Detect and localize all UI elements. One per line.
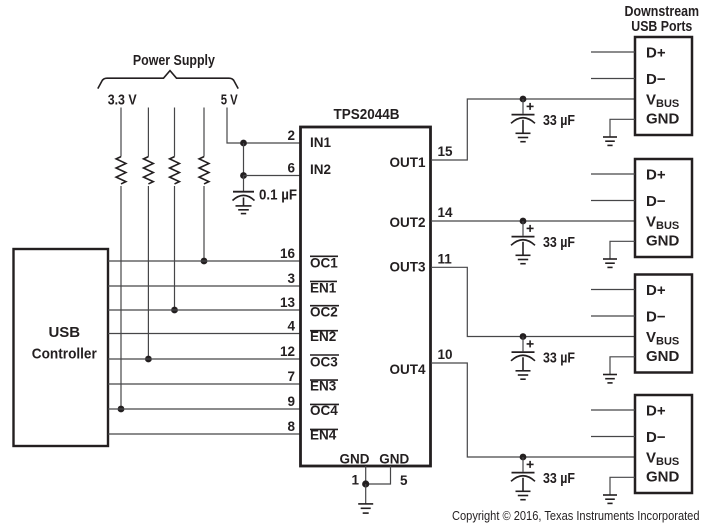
junction rail1-OC4 xyxy=(118,406,125,413)
wire port 3 GND to ground xyxy=(610,357,635,375)
pin label OC4 xyxy=(310,403,339,418)
svg-text:7: 7 xyxy=(287,369,295,384)
svg-text:EN3: EN3 xyxy=(310,379,337,394)
svg-text:10: 10 xyxy=(438,347,453,362)
USB Controller box xyxy=(14,249,109,446)
svg-text:8: 8 xyxy=(287,419,295,434)
ground C1 xyxy=(236,206,252,214)
svg-text:USB Ports: USB Ports xyxy=(631,18,692,35)
capacitor C 33uF port 4 xyxy=(511,473,535,492)
USB port 2 box xyxy=(635,159,692,257)
plus sign port 4 cap xyxy=(527,461,534,468)
plus sign port 2 cap xyxy=(527,225,534,232)
resistor R3 xyxy=(170,157,180,184)
svg-text:5 V: 5 V xyxy=(221,91,238,108)
svg-text:OUT4: OUT4 xyxy=(389,362,425,377)
plus sign port 1 cap xyxy=(527,103,534,110)
wire OUT1 to port1 VBUS xyxy=(431,99,635,160)
ground IC xyxy=(358,504,373,513)
brace power supply xyxy=(98,71,238,89)
junction IN2 node B xyxy=(240,172,247,179)
wire GND pin1 xyxy=(365,466,367,484)
wire port 1 D- stub xyxy=(591,78,635,80)
svg-text:33 µF: 33 µF xyxy=(543,234,575,251)
svg-text:33 µF: 33 µF xyxy=(543,470,575,487)
svg-text:6: 6 xyxy=(287,161,295,176)
junction OUT3 cap xyxy=(520,333,527,340)
svg-text:OUT2: OUT2 xyxy=(389,215,425,230)
svg-text:0.1 µF: 0.1 µF xyxy=(259,186,297,203)
capacitor 33uF port 1 stub xyxy=(522,99,524,114)
svg-text:12: 12 xyxy=(280,344,295,359)
svg-text:3: 3 xyxy=(287,271,295,286)
wire node A down to IN2 node xyxy=(243,143,245,176)
resistor R4 xyxy=(199,157,209,184)
wire OC3 xyxy=(108,358,301,360)
capacitor C 33uF port 2 xyxy=(511,237,535,256)
svg-text:D−: D− xyxy=(646,71,666,88)
wire EN2 xyxy=(108,333,301,335)
svg-text:2: 2 xyxy=(287,128,295,143)
wire rail 4 lower to OC1 xyxy=(203,186,205,261)
svg-text:GND: GND xyxy=(646,348,680,365)
svg-text:IN2: IN2 xyxy=(310,162,331,177)
wire port 2 GND to ground xyxy=(610,241,635,259)
wire OUT3 to port3 VBUS xyxy=(431,267,635,336)
junction rail4-OC1 xyxy=(201,258,208,265)
svg-text:11: 11 xyxy=(438,251,453,266)
svg-text:OUT3: OUT3 xyxy=(389,259,425,274)
wire rail 4 upper xyxy=(203,108,205,157)
svg-text:GND: GND xyxy=(379,452,409,467)
wire port 4 D+ stub xyxy=(591,409,635,411)
junction OUT4 cap xyxy=(520,454,527,461)
svg-text:Controller: Controller xyxy=(32,346,97,363)
plus sign port 3 cap xyxy=(527,340,534,347)
wire GND pin5 xyxy=(366,466,391,484)
wire OUT4 to port4 VBUS xyxy=(431,363,635,457)
resistor R1 xyxy=(116,157,126,184)
wire rail 3 upper xyxy=(174,108,176,157)
ground 33uF port 1 xyxy=(516,133,531,141)
capacitor 33uF port 3 stub xyxy=(522,337,524,352)
svg-text:33 µF: 33 µF xyxy=(543,350,575,367)
svg-text:D+: D+ xyxy=(646,282,666,299)
svg-text:5: 5 xyxy=(400,473,408,488)
USB port 3 box xyxy=(635,275,692,373)
wire EN4 xyxy=(108,433,301,435)
resistor R2 xyxy=(144,157,154,184)
USB port 4 box xyxy=(635,395,692,493)
capacitor 33uF port 2 stub xyxy=(522,221,524,236)
wire rail 2 lower to OC3 xyxy=(147,186,149,359)
svg-text:14: 14 xyxy=(438,205,454,220)
svg-text:15: 15 xyxy=(438,144,454,159)
junction GND xyxy=(362,480,369,487)
svg-text:4: 4 xyxy=(287,319,295,334)
svg-text:16: 16 xyxy=(280,246,296,261)
wire port 2 D+ stub xyxy=(591,173,635,175)
wire OUT2 to port2 VBUS xyxy=(431,220,635,222)
svg-text:EN1: EN1 xyxy=(310,281,337,296)
junction OUT2 cap xyxy=(520,218,527,225)
capacitor C 33uF port 3 xyxy=(511,352,535,371)
svg-text:Power Supply: Power Supply xyxy=(133,52,216,69)
wire port 4 GND to ground xyxy=(610,477,635,495)
wire node B to IN2 pin xyxy=(244,175,301,177)
wire OC4 xyxy=(108,408,301,410)
svg-text:D+: D+ xyxy=(646,402,666,419)
svg-text:9: 9 xyxy=(287,394,295,409)
wire OC2 xyxy=(108,309,301,311)
svg-text:Copyright © 2016, Texas Instru: Copyright © 2016, Texas Instruments Inco… xyxy=(452,508,700,523)
svg-text:3.3 V: 3.3 V xyxy=(108,91,137,108)
svg-text:OC1: OC1 xyxy=(310,256,338,271)
svg-text:D+: D+ xyxy=(646,166,666,183)
ground port 4 xyxy=(603,495,617,503)
svg-text:D−: D− xyxy=(646,193,666,210)
capacitor 33uF port 4 stub xyxy=(522,457,524,472)
junction rail3-OC2 xyxy=(171,307,178,314)
svg-text:IN1: IN1 xyxy=(310,135,332,150)
ground 33uF port 4 xyxy=(516,491,531,499)
svg-text:OC3: OC3 xyxy=(310,354,338,369)
wire EN1 xyxy=(108,285,301,287)
svg-text:USB: USB xyxy=(48,324,80,341)
wire port 2 D- stub xyxy=(591,200,635,202)
pin label OC3 xyxy=(310,354,339,369)
wire 3.3V rail 1 upper xyxy=(120,108,122,157)
wire EN3 xyxy=(108,383,301,385)
svg-text:OUT1: OUT1 xyxy=(389,155,425,170)
junction 5V node A xyxy=(240,140,247,147)
svg-text:TPS2044B: TPS2044B xyxy=(334,106,400,123)
ground 33uF port 2 xyxy=(516,255,531,263)
svg-text:D+: D+ xyxy=(646,44,666,61)
op-amp U1 TPS2044B box xyxy=(301,127,431,466)
ground port 2 xyxy=(603,259,617,267)
wire node B to C1 xyxy=(243,176,245,192)
capacitor C1 0.1uF xyxy=(233,192,255,206)
wire port 1 D+ stub xyxy=(591,51,635,53)
svg-text:OC4: OC4 xyxy=(310,403,338,418)
svg-text:GND: GND xyxy=(340,452,370,467)
junction rail2-OC3 xyxy=(145,356,152,363)
svg-text:13: 13 xyxy=(280,295,296,310)
svg-text:D−: D− xyxy=(646,429,666,446)
wire rail 2 upper xyxy=(147,108,149,157)
pin label OC1 xyxy=(310,256,338,271)
capacitor C 33uF port 1 xyxy=(511,115,535,134)
svg-text:GND: GND xyxy=(646,111,680,128)
wire rail 3 lower to OC2 xyxy=(174,186,176,310)
wire GND to ground xyxy=(365,484,367,504)
USB port 1 box xyxy=(635,37,692,135)
wire port 3 D+ stub xyxy=(591,289,635,291)
svg-text:GND: GND xyxy=(646,469,680,486)
pin label EN4 xyxy=(310,428,338,443)
svg-text:D−: D− xyxy=(646,308,666,325)
svg-text:33 µF: 33 µF xyxy=(543,112,575,129)
wire OC1 xyxy=(108,260,301,262)
wire rail 1 lower to OC4 xyxy=(120,186,122,409)
pin label EN2 xyxy=(310,329,338,344)
ground 33uF port 3 xyxy=(516,371,531,379)
pin label EN1 xyxy=(310,281,337,296)
svg-text:1: 1 xyxy=(351,473,359,488)
wire port 1 GND to ground xyxy=(610,119,635,137)
wire 5V to IN1 xyxy=(227,108,301,144)
ground port 1 xyxy=(603,137,617,145)
ground port 3 xyxy=(603,375,617,383)
wire port 4 D- stub xyxy=(591,436,635,438)
junction OUT1 cap xyxy=(520,96,527,103)
wire port 3 D- stub xyxy=(591,315,635,317)
svg-text:OC2: OC2 xyxy=(310,304,338,319)
pin label OC2 xyxy=(310,304,339,319)
svg-text:GND: GND xyxy=(646,233,680,250)
pin label EN3 xyxy=(310,379,338,394)
